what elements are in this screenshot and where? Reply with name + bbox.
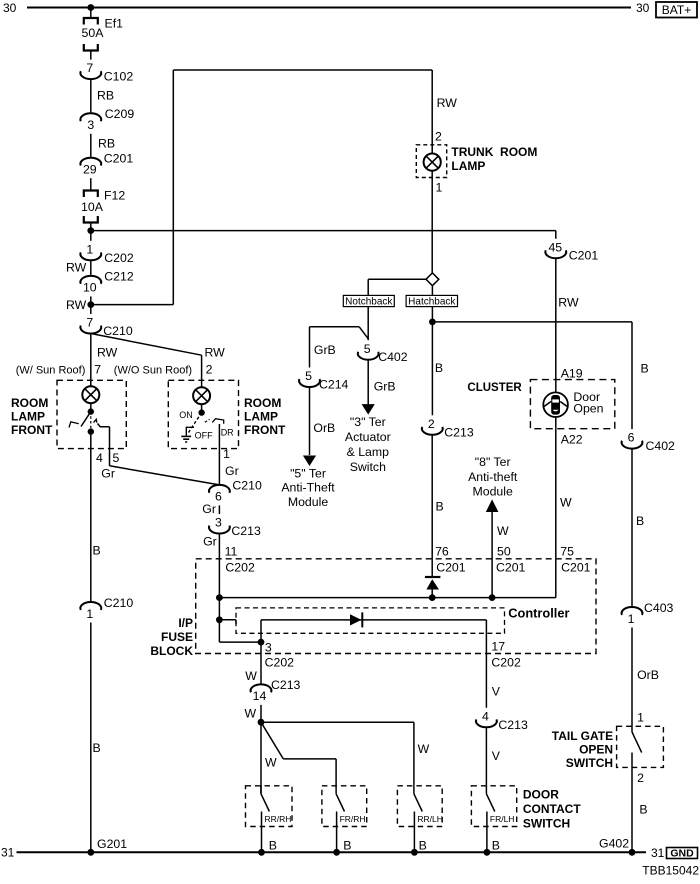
junction FR/LH bus <box>484 849 491 856</box>
svg-text:B: B <box>435 361 443 375</box>
room lamp front left box <box>57 380 126 448</box>
lamp left room lamp <box>82 386 99 403</box>
pin 1 label right lamp <box>223 447 230 461</box>
connector C212 pin 10 <box>80 270 133 295</box>
wire W pin3 to C213-14 <box>245 642 261 684</box>
junction RW node <box>87 301 94 308</box>
wire RB C102-C209 <box>91 79 114 113</box>
svg-text:RW: RW <box>558 296 579 310</box>
svg-text:OrB: OrB <box>313 421 335 435</box>
label CLUSTER <box>467 382 522 394</box>
svg-text:ROOM: ROOM <box>244 396 281 410</box>
door contact switch FR/LH <box>471 786 516 852</box>
svg-text:FR/LH: FR/LH <box>490 814 515 824</box>
wire B to ground G201 <box>91 623 101 853</box>
diamond branch node <box>426 273 439 286</box>
wire B to C213-2 <box>432 322 443 415</box>
svg-text:50: 50 <box>497 545 511 559</box>
svg-text:C213: C213 <box>498 718 528 732</box>
wire Ef1 to C102 <box>90 51 92 60</box>
wire trunk lamp to diamond <box>431 171 433 274</box>
switch left room lamp <box>69 412 110 432</box>
svg-text:V: V <box>492 685 501 699</box>
svg-text:TAIL GATE: TAIL GATE <box>552 729 613 743</box>
svg-text:7: 7 <box>86 61 93 75</box>
svg-text:C209: C209 <box>105 107 135 121</box>
connector C202 pin 1 <box>80 242 133 264</box>
wire diamond to Hatchback <box>431 286 433 296</box>
pin 17 C202 controller <box>491 640 521 670</box>
connector C213 pin 4 <box>476 709 528 731</box>
svg-text:2: 2 <box>206 363 213 377</box>
svg-text:C210: C210 <box>232 479 262 493</box>
connector C201 pin 45 <box>545 240 598 262</box>
junction on 30 bus <box>87 4 94 11</box>
svg-text:B: B <box>269 839 277 853</box>
svg-text:OrB: OrB <box>637 668 659 682</box>
wire RW junction to riser <box>91 304 174 306</box>
junction below F12 <box>87 227 94 234</box>
svg-text:C210: C210 <box>103 324 133 338</box>
connector C402 pin 6 <box>622 431 675 453</box>
wire lamp to switch dot left <box>90 403 92 411</box>
svg-text:C201: C201 <box>569 249 599 263</box>
junction below switch left <box>88 428 94 434</box>
svg-text:50A: 50A <box>82 26 105 40</box>
label 3 Ter Actuator and Lamp Switch <box>345 415 391 474</box>
wire junction to C201-45 feed <box>91 231 556 239</box>
svg-text:B: B <box>636 514 644 528</box>
wire pin17 down <box>485 620 487 654</box>
wire W C213-14 to junction <box>245 705 262 722</box>
svg-text:45: 45 <box>548 240 562 254</box>
wire pin 75 inside controller <box>555 559 557 598</box>
wire Hatchback to junction <box>431 307 433 322</box>
wire pin1 inside right box <box>218 424 220 485</box>
svg-text:30: 30 <box>636 1 650 15</box>
svg-text:C202: C202 <box>104 251 134 265</box>
wire junction to C210-7 <box>90 305 92 314</box>
svg-text:2: 2 <box>637 771 644 785</box>
svg-text:75: 75 <box>560 545 574 559</box>
label B FR/RH <box>343 839 351 853</box>
pin 4 and 5 labels left lamp <box>96 451 120 465</box>
connector C214 pin 5 <box>299 369 348 391</box>
svg-text:5: 5 <box>305 369 312 383</box>
node 30 label right <box>636 1 650 15</box>
label B tail gate <box>639 803 647 817</box>
diode vertical pin 76 <box>425 559 441 598</box>
svg-text:(W/ Sun Roof): (W/ Sun Roof) <box>16 365 86 377</box>
svg-text:7: 7 <box>94 363 101 377</box>
label ROOM LAMP FRONT left <box>11 396 53 437</box>
svg-text:10A: 10A <box>81 200 104 214</box>
svg-text:LAMP: LAMP <box>11 410 45 424</box>
svg-text:TBB15042: TBB15042 <box>642 864 699 878</box>
pin A19 cluster <box>561 366 583 380</box>
label TRUNK ROOM LAMP <box>451 145 537 173</box>
svg-text:RW: RW <box>205 346 226 360</box>
svg-text:DR: DR <box>221 428 234 438</box>
pin 1 tail gate switch <box>637 711 644 725</box>
wire F12 to junction <box>90 223 92 231</box>
svg-text:C202: C202 <box>491 656 521 670</box>
wire pin3 up into diode line <box>261 620 486 642</box>
door contact switch RR/LH <box>397 786 443 852</box>
svg-text:C403: C403 <box>644 601 674 615</box>
label 8 Ter Anti-theft Module <box>468 455 518 499</box>
fuse F12 10A <box>81 189 125 223</box>
svg-text:Open: Open <box>573 401 603 415</box>
wire lamp to switch dot right <box>201 404 203 412</box>
wire to FR-RH branch <box>261 722 336 786</box>
connector C213 pin 14 <box>251 678 301 703</box>
svg-text:C213: C213 <box>444 425 474 439</box>
svg-text:76: 76 <box>435 545 449 559</box>
svg-text:4: 4 <box>482 709 489 723</box>
svg-text:1: 1 <box>86 242 93 256</box>
pin 2 trunk lamp <box>435 130 442 144</box>
svg-text:GND: GND <box>670 848 694 860</box>
svg-text:5: 5 <box>113 451 120 465</box>
wire RW branch to right room lamp <box>91 334 225 388</box>
wire GrB C402 to arrow <box>368 360 395 405</box>
svg-text:B: B <box>641 362 649 376</box>
svg-text:C202: C202 <box>265 656 295 670</box>
svg-text:DOOR: DOOR <box>523 788 559 802</box>
label (W/ Sun Roof) pin 7 <box>16 363 102 377</box>
svg-text:C402: C402 <box>378 350 408 364</box>
svg-text:A22: A22 <box>561 433 583 447</box>
wire GrB branch to C214 <box>310 327 369 368</box>
svg-text:C201: C201 <box>104 152 134 166</box>
node 31 label right <box>651 846 665 860</box>
svg-text:ROOM: ROOM <box>11 396 48 410</box>
svg-text:CLUSTER: CLUSTER <box>467 382 522 394</box>
lamp right room lamp <box>193 387 210 404</box>
svg-text:SWITCH: SWITCH <box>523 817 570 831</box>
svg-text:1: 1 <box>436 181 443 195</box>
svg-text:Module: Module <box>473 485 513 499</box>
svg-text:3: 3 <box>265 641 272 655</box>
I/P fuse block and controller box <box>196 559 596 654</box>
svg-text:B: B <box>343 839 351 853</box>
svg-text:1: 1 <box>223 447 230 461</box>
svg-text:10: 10 <box>83 281 97 295</box>
wire V C213-4 to FR-LH switch <box>486 727 500 786</box>
door contact switch FR/RH <box>322 786 367 852</box>
connector C210 pin 6 <box>209 479 262 504</box>
wire Gr pin5 to C210-6 <box>101 466 219 485</box>
room lamp front right box <box>168 380 238 448</box>
junction FR/RH bus <box>333 849 340 856</box>
svg-text:Module: Module <box>288 495 328 509</box>
svg-text:30: 30 <box>3 1 17 15</box>
wire C201 to F12 <box>90 178 92 190</box>
connector C403 pin 1 <box>622 601 674 626</box>
svg-text:BLOCK: BLOCK <box>150 644 193 658</box>
wire OrB C403 to tail gate switch <box>632 628 659 727</box>
fuse Ef1 50A <box>82 17 124 51</box>
cluster box <box>530 380 614 429</box>
svg-text:C102: C102 <box>104 70 134 84</box>
svg-text:G402: G402 <box>599 837 629 851</box>
label ROOM LAMP FRONT right <box>244 396 286 437</box>
svg-text:W: W <box>245 707 257 721</box>
wire riser to trunk feed <box>173 70 432 305</box>
arrow to 3 Ter actuator <box>362 404 375 415</box>
wire B C402-6 to C403 <box>632 362 649 608</box>
svg-text:Gr: Gr <box>202 502 216 516</box>
svg-text:C402: C402 <box>646 439 676 453</box>
svg-text:W: W <box>560 496 572 510</box>
svg-text:11: 11 <box>225 545 238 559</box>
junction fuse block lower <box>216 616 223 623</box>
junction RR/RH bus <box>258 849 265 856</box>
wire pin5 inside box <box>109 427 111 466</box>
label TAIL GATE OPEN SWITCH <box>552 729 613 770</box>
svg-text:OPEN: OPEN <box>579 743 613 757</box>
junction diode to bus <box>429 594 436 601</box>
svg-text:RB: RB <box>97 89 114 103</box>
node 30 bus (BAT+) wire <box>27 7 631 9</box>
svg-text:1: 1 <box>628 612 635 626</box>
wire Notchback to C402-5 <box>367 307 369 341</box>
wire junction to right B column <box>432 322 632 429</box>
pin 3 C202 fuse block <box>265 641 295 670</box>
svg-text:"8" Ter: "8" Ter <box>475 455 511 469</box>
svg-text:& Lamp: & Lamp <box>347 445 390 459</box>
svg-text:RB: RB <box>98 137 115 151</box>
junction RR/LH bus <box>411 849 418 856</box>
GND terminal box <box>667 848 698 860</box>
diagram number TBB15042 <box>642 864 699 878</box>
svg-text:"3" Ter: "3" Ter <box>350 415 386 429</box>
svg-text:C210: C210 <box>104 596 134 610</box>
wire diamond to Notchback <box>368 279 426 295</box>
svg-text:2: 2 <box>435 130 442 144</box>
wire V pin17 to C213-4 <box>486 654 500 708</box>
svg-text:BAT+: BAT+ <box>662 3 691 17</box>
svg-text:B: B <box>639 803 647 817</box>
svg-text:Switch: Switch <box>350 460 386 474</box>
pin 11 C202 fuse block <box>225 545 255 575</box>
connector C210 pin 7 <box>80 316 132 338</box>
svg-text:C201: C201 <box>561 561 591 575</box>
svg-text:Anti-Theft: Anti-Theft <box>281 481 335 495</box>
connector C402 pin 5 <box>358 342 408 364</box>
svg-text:29: 29 <box>83 163 97 177</box>
svg-text:1: 1 <box>86 607 93 621</box>
wire Gr C213-3 to pin 11 <box>203 533 219 598</box>
wire through door open indicator <box>555 380 557 429</box>
svg-text:LAMP: LAMP <box>244 410 278 424</box>
svg-text:F12: F12 <box>104 189 125 203</box>
trunk room lamp box <box>416 145 446 178</box>
svg-text:W: W <box>265 756 277 770</box>
wire pin 50 up to arrow <box>492 512 509 598</box>
svg-text:RW: RW <box>437 96 458 110</box>
switch right room lamp ON/OFF/DR <box>189 413 224 433</box>
svg-text:C201: C201 <box>496 561 526 575</box>
door contact switch RR/RH <box>246 786 293 852</box>
svg-text:SWITCH: SWITCH <box>566 756 613 770</box>
svg-text:LAMP: LAMP <box>451 159 485 173</box>
pin 2 tail gate switch <box>637 771 644 785</box>
lamp trunk room lamp <box>424 154 441 171</box>
wire to RR-LH branch <box>261 722 430 786</box>
wire W cluster to controller pin 75 <box>556 429 572 559</box>
node 30 label left <box>3 1 17 15</box>
svg-text:V: V <box>492 749 501 763</box>
wire to lower junction <box>218 598 220 620</box>
stub to controller inner box <box>219 620 236 624</box>
controller inner box <box>236 608 505 633</box>
connector C102 pin 7 <box>80 61 133 83</box>
label B RR/RH <box>269 839 277 853</box>
svg-text:FRONT: FRONT <box>244 423 286 437</box>
tail gate open switch box <box>617 726 664 767</box>
svg-text:4: 4 <box>96 451 103 465</box>
svg-text:7: 7 <box>86 316 93 330</box>
Notchback tag <box>343 295 394 307</box>
switch tail gate <box>632 726 642 852</box>
svg-text:C201: C201 <box>436 561 466 575</box>
label DR <box>221 428 234 438</box>
label Gr pin1 wire <box>225 464 239 478</box>
wire RW to trunk lamp <box>432 70 457 154</box>
svg-text:Gr: Gr <box>101 467 115 481</box>
svg-text:GrB: GrB <box>374 380 396 394</box>
svg-text:31: 31 <box>1 846 15 860</box>
BAT+ terminal box <box>656 2 697 18</box>
label Controller <box>508 606 569 621</box>
wire RW C202-C212 <box>66 260 91 276</box>
svg-text:FR/RH: FR/RH <box>340 814 366 824</box>
label B RR/LH <box>419 839 427 853</box>
svg-text:B: B <box>93 544 101 558</box>
wire Gr stub <box>202 502 219 516</box>
diode horizontal in controller <box>350 612 362 627</box>
node 31 ground bus <box>17 851 647 853</box>
svg-text:C202: C202 <box>225 561 255 575</box>
svg-text:31: 31 <box>651 846 665 860</box>
svg-text:Controller: Controller <box>508 606 569 621</box>
junction door switch node <box>258 719 265 726</box>
svg-text:RR/LH: RR/LH <box>417 814 443 824</box>
pin 1 trunk lamp <box>436 181 443 195</box>
svg-text:Actuator: Actuator <box>345 430 391 444</box>
wire pin4 down left column <box>91 432 101 602</box>
connector C210 pin 1 <box>80 596 133 621</box>
svg-text:B: B <box>436 500 444 514</box>
svg-text:OFF: OFF <box>195 431 213 441</box>
svg-text:A19: A19 <box>561 366 583 380</box>
svg-text:C214: C214 <box>319 378 349 392</box>
junction above switch left <box>88 408 94 414</box>
wire RW to left room lamp <box>91 334 118 387</box>
label Door Open <box>573 390 603 415</box>
node 31 label left <box>1 846 15 860</box>
svg-text:W: W <box>497 524 509 538</box>
svg-text:3: 3 <box>215 516 222 530</box>
wire bus to fuse Ef1 <box>90 8 92 19</box>
svg-text:RW: RW <box>66 261 87 275</box>
wire RB C209-C201 <box>91 134 115 158</box>
svg-text:W: W <box>245 669 257 683</box>
svg-text:RW: RW <box>97 346 118 360</box>
svg-text:6: 6 <box>628 431 635 445</box>
svg-text:ON: ON <box>179 410 193 420</box>
label ON <box>179 410 193 420</box>
svg-text:5: 5 <box>364 342 371 356</box>
wire RW C212 to junction <box>66 296 91 312</box>
junction pin 50 on bus <box>489 594 496 601</box>
ground G402 <box>599 837 635 856</box>
svg-text:B: B <box>93 741 101 755</box>
ground symbol right lamp switch <box>181 427 194 442</box>
pin 75 C201 controller <box>560 545 590 575</box>
wire B C213-2 to controller pin 76 <box>432 435 444 559</box>
svg-text:C213: C213 <box>271 678 301 692</box>
svg-text:FUSE: FUSE <box>161 630 193 644</box>
arrow to 8 Ter anti-theft <box>486 499 499 512</box>
svg-text:1: 1 <box>637 711 644 725</box>
svg-text:G201: G201 <box>97 837 127 851</box>
svg-text:B: B <box>419 839 427 853</box>
ground G201 <box>87 837 127 856</box>
label 5 Ter Anti-Theft Module <box>281 466 335 509</box>
svg-text:Gr: Gr <box>225 464 239 478</box>
junction pin 3 <box>258 639 265 646</box>
svg-text:14: 14 <box>253 689 267 703</box>
junction fuse block upper <box>216 594 223 601</box>
svg-text:Ef1: Ef1 <box>105 17 124 31</box>
svg-text:Hatchback: Hatchback <box>408 297 456 308</box>
Hatchback tag <box>406 295 457 307</box>
svg-text:Notchback: Notchback <box>345 297 393 308</box>
svg-text:B: B <box>492 839 500 853</box>
wire RW C201-45 to cluster <box>556 258 579 379</box>
svg-text:C212: C212 <box>104 270 134 284</box>
label I/P FUSE BLOCK <box>150 616 193 658</box>
svg-text:3: 3 <box>87 118 94 132</box>
svg-text:CONTACT: CONTACT <box>523 802 581 816</box>
arrow to 5 Ter anti-theft <box>303 456 316 467</box>
wire OrB C214 to arrow <box>310 387 336 455</box>
svg-text:W: W <box>418 742 430 756</box>
svg-text:2: 2 <box>428 417 435 431</box>
svg-text:GrB: GrB <box>314 343 336 357</box>
pin 76 C201 controller <box>435 545 466 575</box>
junction below Hatchback <box>429 319 436 326</box>
svg-text:FRONT: FRONT <box>11 423 53 437</box>
wire to pin 3 corner <box>219 620 261 642</box>
svg-text:6: 6 <box>215 490 222 504</box>
pin A22 cluster <box>561 433 583 447</box>
label DOOR CONTACT SWITCH <box>523 788 581 831</box>
label B FR/LH <box>492 839 500 853</box>
svg-text:I/P: I/P <box>178 616 193 630</box>
svg-text:Anti-theft: Anti-theft <box>468 470 518 484</box>
svg-text:C213: C213 <box>231 524 261 538</box>
svg-text:"5" Ter: "5" Ter <box>290 466 326 480</box>
svg-text:17: 17 <box>491 640 505 654</box>
junction above switch right <box>198 409 204 415</box>
svg-text:Gr: Gr <box>203 534 217 548</box>
wire W to RR-RH switch <box>261 722 277 794</box>
indicator door open <box>543 392 568 417</box>
